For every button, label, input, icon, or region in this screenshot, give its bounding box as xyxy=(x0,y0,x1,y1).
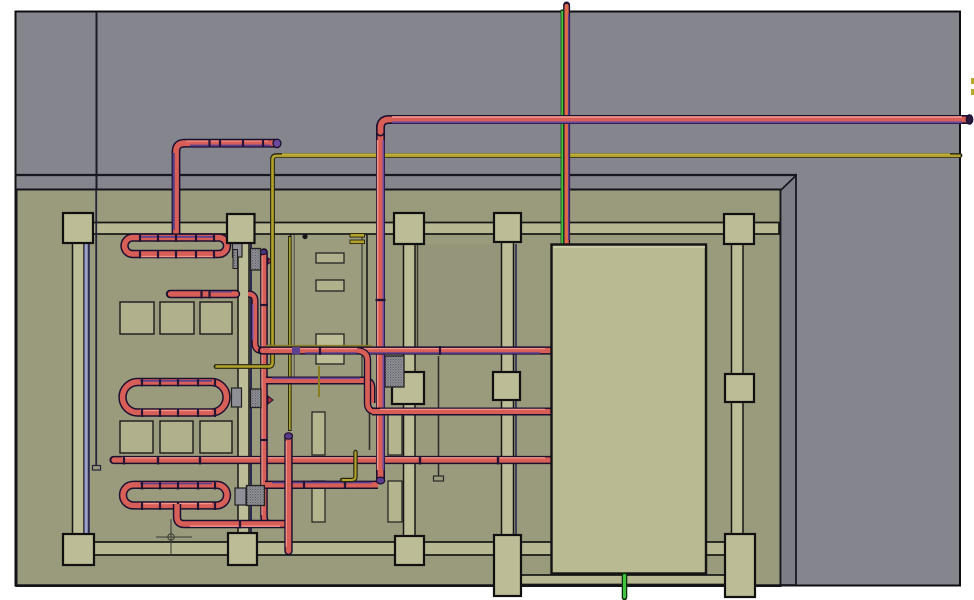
thin yellow line along pipe top xyxy=(266,345,372,347)
vertical pipe pair with green tracer xyxy=(562,5,569,244)
loop3 top extension pipe to main riser xyxy=(265,481,378,490)
column C3 shaft xyxy=(404,244,416,536)
column C4 mid box xyxy=(493,372,520,400)
column C2 base xyxy=(228,533,257,565)
short pipe (y294) xyxy=(170,290,236,299)
hatched box at loop1 right xyxy=(251,249,261,271)
hatched box HB1 (at C3) xyxy=(385,356,404,387)
pad A2 xyxy=(160,302,194,334)
column C3 base xyxy=(395,536,424,565)
column C5 shaft xyxy=(732,244,744,535)
branch elbow down to y411 pipe xyxy=(357,351,376,412)
loop3 drop and bottom run xyxy=(177,504,289,529)
wall corner vertical line xyxy=(96,12,98,190)
column C2 shaft xyxy=(238,243,249,535)
cabinet top dot xyxy=(302,234,307,239)
hatched box HB2 (loop2 right) xyxy=(251,389,262,408)
top beam xyxy=(64,223,779,235)
gooseneck pipe (vertical+top horizontal) xyxy=(174,139,281,234)
green pipe at bottom xyxy=(622,575,628,598)
column C4 shaft xyxy=(502,242,514,536)
horizontal pipe (y411) xyxy=(372,409,551,411)
floor bottom edge xyxy=(16,584,780,587)
riser pipe right of C2 xyxy=(260,249,286,524)
cabinet slot 2 xyxy=(316,280,344,291)
column C3 mid box xyxy=(392,372,424,404)
tank (large equipment box) xyxy=(552,245,707,574)
lower beam xyxy=(521,575,727,585)
pad B1 xyxy=(120,421,153,453)
loop1 connector box xyxy=(233,244,243,258)
thin conduit line x290 xyxy=(288,236,292,431)
expansion loop 1 xyxy=(125,234,228,259)
wall corner line in room xyxy=(95,190,97,468)
yellow dashes at cabinet top xyxy=(350,234,365,238)
room frame strip (right wall edge) xyxy=(781,176,797,586)
expansion loop 3 xyxy=(123,481,227,510)
column C5 mid box xyxy=(725,374,754,402)
expansion loop 2 xyxy=(123,378,227,417)
panel strip P2 xyxy=(312,481,325,522)
main vertical red pipe (x380) xyxy=(376,126,386,484)
parapet top edge line xyxy=(15,174,797,176)
hatched box HB4 (loop3 right) xyxy=(247,486,265,506)
column C1 cap xyxy=(63,213,93,243)
C1 lavender+navy line xyxy=(85,243,88,534)
right edge text fragments xyxy=(971,78,974,84)
yellow pipe main run (horizontal on wall, down and left branch) xyxy=(216,154,960,367)
yellow short vertical at cabinet xyxy=(318,366,320,397)
mid horizontal pipe (y350) xyxy=(262,346,551,355)
thin rod 2 xyxy=(438,356,440,477)
thin rod 1 xyxy=(369,356,371,450)
capped riser pipe x288 xyxy=(285,433,293,551)
bottom beam xyxy=(64,542,740,555)
column C1 shaft xyxy=(73,243,85,535)
short elbow pipe left of riser xyxy=(248,294,262,351)
long horizontal pipe (y460) xyxy=(114,456,552,465)
loop2 connector box xyxy=(232,388,242,407)
pad A1 xyxy=(120,302,154,334)
column C1 base xyxy=(63,534,94,565)
cabinet lower square xyxy=(316,334,344,364)
loop3 connector box xyxy=(235,488,246,505)
panel strip P1 xyxy=(312,412,325,455)
pad B3 xyxy=(200,421,232,453)
pad A3 xyxy=(200,302,232,334)
column C4 base xyxy=(494,535,521,596)
panel strip P3 xyxy=(388,411,402,455)
panel strip P4 xyxy=(388,481,402,522)
floor shade panel between C3 and C4 xyxy=(417,244,502,347)
yellow small L xyxy=(342,452,356,480)
crosshair marker xyxy=(156,519,192,556)
cabinet slot 1 xyxy=(316,253,344,263)
long top horizontal pipe xyxy=(381,115,973,132)
floor (olive room floor) xyxy=(17,190,781,587)
cabinet panel xyxy=(291,233,368,379)
column C4 cap xyxy=(494,213,521,242)
column C2 cap xyxy=(227,214,255,243)
pad B2 xyxy=(160,421,193,453)
column C5 cap xyxy=(724,214,754,244)
purple flange on y350 pipe xyxy=(292,347,300,354)
horizontal pipe from riser to C3 (y380) xyxy=(266,378,372,403)
column C3 cap xyxy=(394,213,424,244)
column C5 base xyxy=(725,534,755,597)
